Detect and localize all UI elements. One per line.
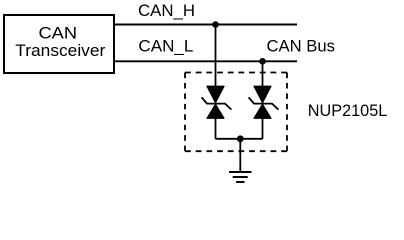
junction common node (237, 135, 244, 142)
wire D2 cathode down to common node (262, 118, 264, 139)
svg-text:NUP2105L: NUP2105L (308, 102, 388, 120)
wire D1 cathode down to common node (215, 118, 217, 139)
TVS diode D1 (bidirectional zener) (202, 86, 232, 118)
NUP2105L package outline (dashed) (185, 73, 287, 152)
wire common node horizontal (216, 138, 263, 140)
CAN transceiver block U1 (4, 15, 114, 73)
wire common node down to ground (239, 139, 241, 172)
wire CAN_L (114, 60, 297, 62)
TVS diode D2 (bidirectional zener) (249, 86, 279, 118)
junction node on CAN_L (259, 58, 266, 65)
junction node on CAN_H (212, 21, 219, 28)
wire CAN_H junction down to D1 anode (215, 25, 217, 87)
wire CAN_L junction down to D2 anode (262, 61, 264, 87)
svg-text:CAN Bus: CAN Bus (267, 37, 336, 55)
ground symbol (229, 172, 252, 182)
svg-text:CAN_L: CAN_L (138, 37, 193, 55)
svg-text:CAN: CAN (39, 24, 78, 42)
wire CAN_H (114, 24, 297, 26)
svg-text:CAN_H: CAN_H (138, 2, 195, 20)
svg-text:Transceiver: Transceiver (15, 42, 106, 60)
